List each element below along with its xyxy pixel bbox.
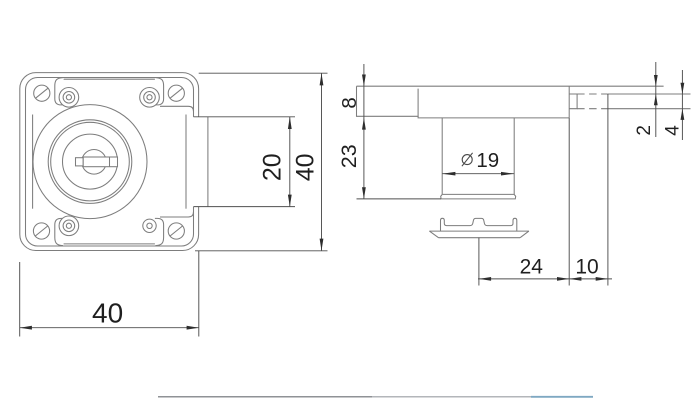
- svg-text:40: 40: [291, 153, 319, 181]
- svg-text:2: 2: [634, 125, 655, 136]
- svg-text:8: 8: [338, 97, 361, 108]
- svg-text:19: 19: [476, 149, 499, 172]
- svg-text:20: 20: [258, 153, 286, 181]
- svg-text:23: 23: [337, 144, 361, 168]
- svg-text:10: 10: [575, 256, 598, 279]
- svg-text:4: 4: [662, 125, 683, 136]
- svg-text:40: 40: [92, 298, 123, 329]
- svg-text:24: 24: [520, 256, 544, 279]
